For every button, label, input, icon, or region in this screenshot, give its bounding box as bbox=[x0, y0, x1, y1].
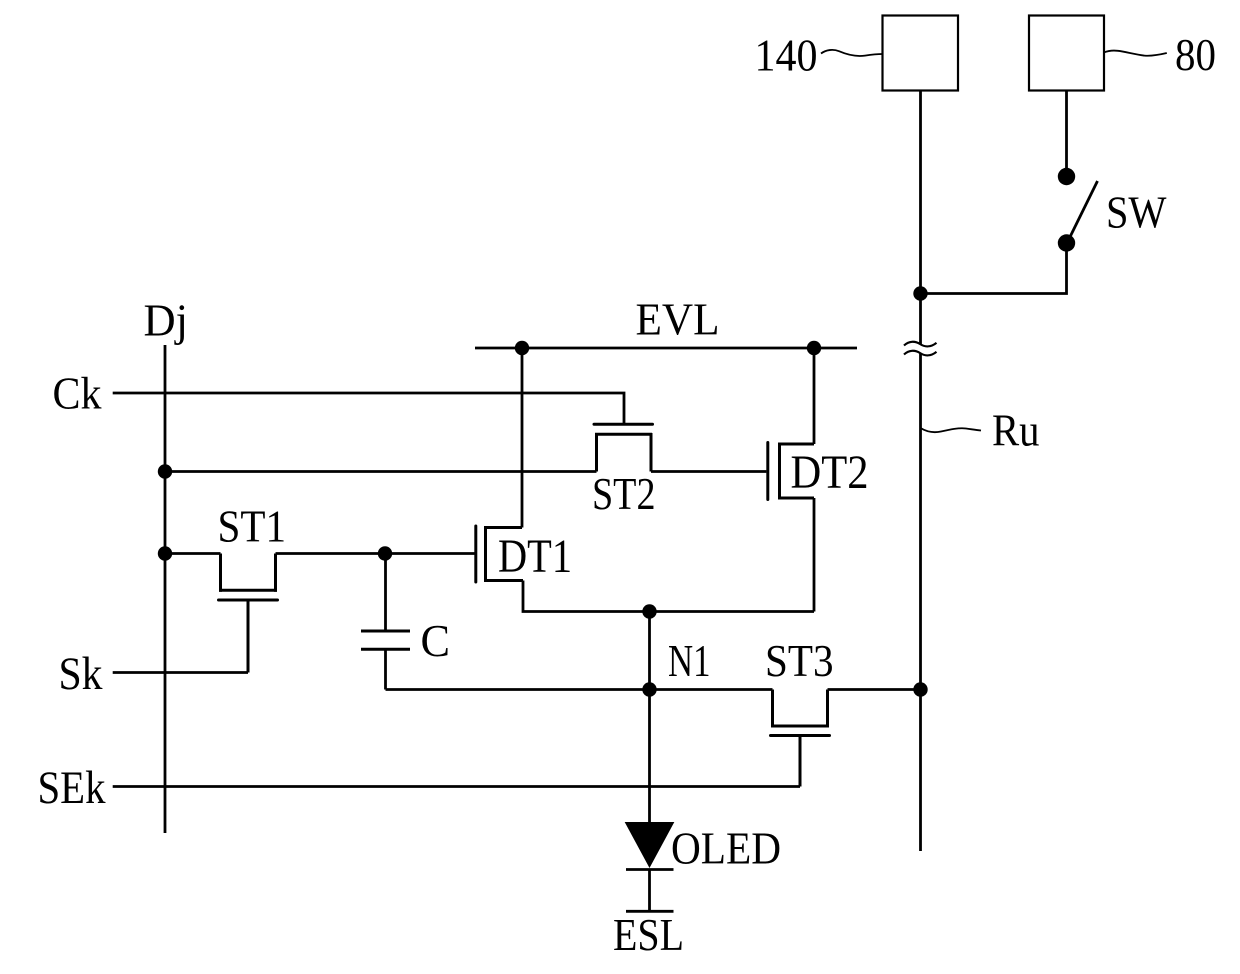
wire SEk line to ST3 gate bbox=[113, 785, 800, 788]
wire node N1 to ST3 source bbox=[650, 688, 773, 691]
junction dot DT1 source / N1 top bbox=[642, 604, 656, 618]
transistor ST1 bbox=[219, 554, 278, 673]
junction node on Ru rail bbox=[913, 286, 927, 300]
svg-text:140: 140 bbox=[755, 30, 818, 81]
svg-text:SEk: SEk bbox=[38, 762, 106, 814]
junction dot ST3 / Ru rail bbox=[913, 682, 927, 696]
svg-text:C: C bbox=[421, 615, 451, 666]
junction dot Dj row2 bbox=[158, 464, 172, 478]
wire capacitor bottom to node N1 bbox=[386, 688, 650, 691]
diode OLED bbox=[626, 823, 674, 912]
wire ST2 drain to DT2 gate bbox=[651, 470, 766, 473]
wire Ck clock line to ST2 gate bbox=[113, 393, 624, 424]
wire ST3 drain to Ru rail bbox=[828, 688, 921, 691]
svg-text:ST1: ST1 bbox=[218, 501, 287, 552]
leader squiggle for 140 bbox=[821, 50, 883, 56]
svg-text:DT2: DT2 bbox=[791, 446, 869, 499]
wire ST1 drain to capacitor node bbox=[276, 552, 386, 555]
junction dot capacitor node bbox=[378, 546, 392, 560]
wire Dj data line bbox=[164, 345, 167, 833]
switch SW upper contact dot bbox=[1058, 168, 1075, 185]
break symbol upper wave bbox=[904, 342, 937, 347]
svg-text:ESL: ESL bbox=[613, 909, 684, 960]
wire DT2 source down bbox=[813, 498, 816, 612]
block 140 bbox=[883, 16, 959, 91]
wire Sk scan line to ST1 gate bbox=[113, 671, 248, 674]
wire DT2 drain up to EVL bbox=[813, 348, 816, 444]
wire Ru rail lower bbox=[919, 353, 922, 851]
leader squiggle for Ru bbox=[921, 428, 982, 432]
junction dot EVL/DT1 bbox=[515, 341, 529, 355]
junction dot node N1 bbox=[642, 682, 656, 696]
svg-text:OLED: OLED bbox=[671, 823, 781, 874]
block 80 bbox=[1029, 16, 1104, 91]
svg-text:80: 80 bbox=[1175, 29, 1216, 80]
leader squiggle for 80 bbox=[1104, 51, 1167, 56]
capacitor C bbox=[361, 554, 410, 690]
transistor DT1 bbox=[476, 526, 523, 582]
svg-text:N1: N1 bbox=[668, 635, 711, 686]
junction dot Dj / ST1 row bbox=[158, 546, 172, 560]
wire DT1 source down and across to DT2 source bbox=[523, 581, 814, 612]
switch SW lower contact dot bbox=[1058, 234, 1075, 251]
svg-text:Ck: Ck bbox=[53, 368, 102, 419]
transistor ST3 bbox=[771, 690, 830, 787]
switch SW lever bbox=[1068, 181, 1098, 241]
wire row2 Dj to ST2 source bbox=[165, 470, 597, 473]
svg-text:EVL: EVL bbox=[636, 294, 720, 345]
wire EVL down to DT1 drain bbox=[521, 348, 524, 528]
transistor ST2 bbox=[594, 424, 653, 471]
wire capacitor node to DT1 gate bbox=[385, 552, 475, 555]
svg-text:ST3: ST3 bbox=[765, 635, 834, 686]
power rail EVL bbox=[475, 347, 857, 350]
wire: block 140 down to break (Ru rail upper) bbox=[919, 91, 922, 345]
junction dot EVL/DT2 bbox=[807, 341, 821, 355]
svg-text:DT1: DT1 bbox=[498, 530, 572, 583]
wire: switch down and left to Ru rail bbox=[921, 243, 1067, 294]
svg-text:Dj: Dj bbox=[144, 295, 189, 346]
svg-text:Ru: Ru bbox=[992, 405, 1040, 456]
wire node N1 vertical bbox=[648, 612, 651, 824]
wire Dj to ST1 source bbox=[165, 552, 221, 555]
break symbol lower wave bbox=[904, 351, 937, 356]
transistor DT2 bbox=[768, 443, 814, 500]
svg-text:ST2: ST2 bbox=[592, 468, 656, 519]
wire: block 80 down to switch bbox=[1065, 91, 1068, 177]
svg-text:SW: SW bbox=[1106, 187, 1167, 238]
svg-text:Sk: Sk bbox=[59, 648, 103, 700]
